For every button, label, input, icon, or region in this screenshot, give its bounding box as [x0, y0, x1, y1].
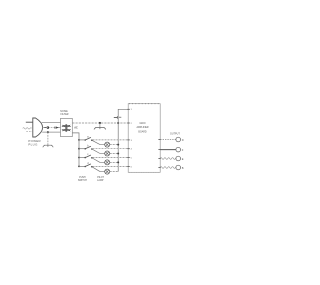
switch bus from filter	[72, 133, 79, 167]
noise filter T1 windings	[62, 124, 71, 132]
switch S1	[78, 136, 128, 145]
connector CN2	[55, 127, 59, 129]
board top edge tick texture	[129, 103, 160, 105]
switch S3	[78, 153, 128, 162]
junction dot at lamp bus / AC line	[117, 122, 119, 124]
wire plug to filter (bottom, E)	[42, 131, 60, 133]
svg-text:PLUG: PLUG	[28, 143, 38, 147]
board left pin labels	[131, 109, 133, 168]
svg-text:MAIN: MAIN	[140, 122, 146, 125]
switch S4	[78, 162, 128, 172]
svg-text:1: 1	[131, 109, 133, 111]
svg-text:D: D	[182, 138, 184, 142]
svg-text:SWITCH: SWITCH	[78, 180, 87, 182]
svg-text:AC: AC	[74, 127, 78, 130]
lamp PL2	[100, 151, 119, 156]
jack J2	[176, 147, 181, 152]
cord wire (solid) into plug	[26, 121, 33, 123]
svg-text:BOARD: BOARD	[138, 130, 147, 133]
svg-text:B: B	[182, 166, 184, 170]
connector CN3 on riser	[114, 116, 122, 118]
svg-text:F: F	[182, 148, 184, 152]
lamp return bus	[117, 123, 119, 172]
svg-text:E: E	[182, 157, 184, 161]
AC line filter to board	[72, 122, 128, 124]
wire plug to filter (top, L)	[42, 121, 61, 123]
switch S2	[78, 144, 128, 153]
wire ground stub	[99, 123, 101, 128]
wire plug to filter (middle)	[43, 127, 61, 129]
svg-text:PILOT: PILOT	[97, 177, 104, 179]
power plug P1 body	[33, 118, 43, 137]
svg-text:2: 2	[131, 123, 133, 125]
noise filter T1 box	[61, 118, 73, 136]
output wire 2 (solid)	[160, 149, 176, 151]
board right pin ticks	[158, 140, 160, 168]
chassis ground on AC line	[94, 128, 106, 130]
svg-text:3: 3	[131, 140, 133, 142]
main circuit board U1	[128, 104, 160, 173]
wire ground drop	[47, 132, 49, 145]
svg-text:AMPLIFIER: AMPLIFIER	[136, 126, 148, 129]
lamp PL3	[100, 160, 119, 165]
lamp PL4	[100, 169, 118, 174]
cord wire (wavy) into plug	[23, 128, 32, 129]
jack J1	[176, 137, 181, 142]
lamp PL1	[100, 142, 119, 147]
svg-text:4: 4	[131, 149, 133, 151]
svg-text:FILTER: FILTER	[60, 113, 68, 116]
output wire 1 (dashed)	[160, 139, 176, 141]
junction dot at ground tap	[99, 122, 101, 124]
svg-text:LAMP: LAMP	[97, 179, 104, 182]
svg-text:5: 5	[131, 157, 133, 159]
junction dot on ground wire	[47, 131, 49, 133]
cord wire (dashed) into plug	[26, 131, 33, 133]
svg-text:OUTPUT: OUTPUT	[170, 133, 180, 136]
svg-text:PUSH: PUSH	[79, 177, 86, 179]
output wire 4 (wavy)	[160, 167, 175, 169]
chassis ground (plug earth)	[43, 145, 53, 147]
svg-text:6: 6	[131, 166, 133, 168]
wire up to board pin 1	[118, 109, 128, 123]
jack J4	[176, 165, 181, 170]
output wire 3 (wavy)	[160, 158, 175, 160]
jack J3	[176, 156, 181, 161]
board left pin ticks	[127, 109, 129, 166]
connector CN1	[44, 126, 48, 128]
